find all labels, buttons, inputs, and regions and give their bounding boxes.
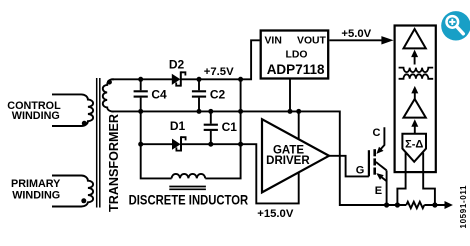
svg-text:10591-011: 10591-011 bbox=[459, 185, 468, 229]
emitter lead with arrow bbox=[378, 174, 387, 181]
wire C4 branch down to inductor loop bbox=[141, 111, 172, 178]
wire VOUT +5.0V bbox=[329, 39, 382, 41]
IGBT Q1 bbox=[369, 127, 387, 205]
svg-text:+5.0V: +5.0V bbox=[341, 28, 371, 40]
body bar dashed bbox=[373, 149, 376, 156]
wire LDO ground pin bbox=[289, 79, 291, 112]
primary winding coil bbox=[52, 176, 93, 207]
gate driver U2 triangle bbox=[262, 119, 329, 192]
svg-text:C4: C4 bbox=[151, 88, 167, 102]
svg-text:D1: D1 bbox=[170, 119, 186, 133]
capacitor C4 bbox=[134, 79, 148, 111]
amplifier A2 bbox=[404, 99, 426, 118]
label CONTROL WINDING bbox=[7, 100, 61, 122]
arrow up into coils bbox=[411, 86, 418, 99]
wire D1 rail left bbox=[141, 143, 173, 145]
arrow up into A1 bbox=[411, 50, 418, 65]
LDO U1 box ADP7118 bbox=[261, 31, 329, 79]
svg-text:E: E bbox=[375, 185, 382, 197]
zoom button icon bbox=[441, 11, 470, 40]
arrow +5.0V bbox=[381, 36, 393, 44]
secondary winding coil bbox=[103, 79, 114, 111]
sigma-delta modulator box bbox=[402, 134, 426, 162]
capacitor C1 bbox=[204, 111, 218, 144]
isolator block U3 bbox=[395, 26, 436, 173]
inductor L1 bbox=[169, 174, 206, 189]
svg-text:C2: C2 bbox=[210, 88, 226, 102]
svg-text:WINDING: WINDING bbox=[12, 189, 60, 201]
coupling coils top bbox=[399, 68, 434, 73]
svg-text:VOUT: VOUT bbox=[297, 35, 327, 46]
wire D1 rail right, down to +15.0V feed, to driver bottom pin bbox=[181, 144, 299, 203]
wire top rail +7.5V right segment to LDO VIN bbox=[181, 40, 260, 79]
wire driver output to IGBT gate bbox=[329, 156, 369, 177]
svg-text:WINDING: WINDING bbox=[12, 110, 60, 122]
svg-text:DISCRETE INDUCTOR: DISCRETE INDUCTOR bbox=[129, 192, 249, 208]
resistor R1 bbox=[406, 202, 424, 208]
arrow up into A2 bbox=[411, 119, 418, 133]
svg-text:DRIVER: DRIVER bbox=[266, 155, 310, 167]
svg-text:+7.5V: +7.5V bbox=[204, 66, 234, 78]
control winding coil bbox=[52, 94, 93, 126]
wire second rail bbox=[112, 111, 406, 205]
collector lead bbox=[380, 127, 385, 150]
wire bottom rail right of resistor bbox=[424, 204, 444, 206]
arrow bottom rail bbox=[445, 201, 453, 209]
svg-text:Σ-Δ: Σ-Δ bbox=[405, 139, 423, 151]
coupling coils bottom bbox=[399, 74, 434, 79]
svg-text:D2: D2 bbox=[169, 58, 185, 72]
secondary winding phase dot bbox=[107, 80, 112, 85]
control winding phase dot bbox=[82, 121, 87, 126]
primary winding phase dot bbox=[81, 198, 86, 203]
svg-text:ADP7118: ADP7118 bbox=[267, 62, 325, 77]
svg-text:LDO: LDO bbox=[286, 49, 308, 60]
svg-text:C1: C1 bbox=[222, 120, 238, 134]
svg-text:+15.0V: +15.0V bbox=[257, 208, 294, 220]
wire right loop branch bbox=[205, 79, 240, 178]
label PRIMARY WINDING bbox=[11, 178, 61, 201]
wire sigma-delta left output bbox=[397, 153, 405, 205]
transformer T1 core bbox=[97, 78, 100, 208]
svg-text:VIN: VIN bbox=[265, 35, 282, 46]
svg-text:PRIMARY: PRIMARY bbox=[11, 178, 61, 190]
amplifier A1 bbox=[404, 29, 426, 48]
svg-text:TRANSFORMER: TRANSFORMER bbox=[106, 114, 121, 212]
diode D1 bbox=[172, 136, 186, 151]
wire top rail +7.5V left segment bbox=[112, 78, 172, 80]
svg-text:C: C bbox=[373, 127, 381, 139]
middle diagonal bbox=[376, 162, 387, 170]
gate bar bbox=[368, 150, 370, 176]
label GATE DRIVER bbox=[266, 144, 310, 167]
diode D2 bbox=[172, 71, 186, 86]
wire driver top supply pin bbox=[298, 111, 300, 138]
wire sigma-delta right output bbox=[423, 153, 435, 205]
svg-text:G: G bbox=[356, 165, 365, 177]
capacitor C2 bbox=[192, 79, 206, 111]
